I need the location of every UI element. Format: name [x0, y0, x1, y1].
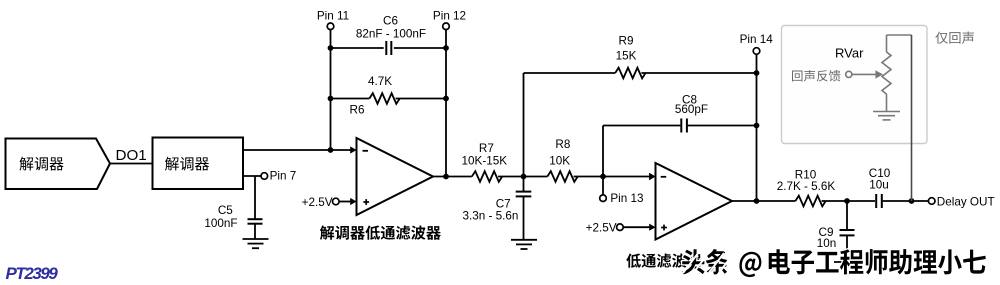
demodulator block 2 [153, 138, 244, 190]
label C9 value 10n [817, 226, 837, 250]
label C5 value [204, 204, 237, 230]
junction [521, 174, 527, 180]
output terminal Delay OUT [928, 195, 994, 208]
svg-text:C5: C5 [218, 204, 233, 217]
supply +2.5V to U2 non-inverting input [586, 222, 650, 235]
svg-text:+2.5V: +2.5V [302, 196, 333, 209]
wire: wiper arrow [852, 70, 883, 78]
junction [844, 198, 850, 204]
wire: block2 output to op-amp U1 inverting input [243, 146, 357, 153]
label C7 value [463, 197, 519, 222]
capacitor C8 feedback [603, 119, 757, 177]
svg-text:10K: 10K [549, 155, 570, 168]
junction [754, 123, 760, 129]
svg-text:C6: C6 [383, 15, 398, 28]
resistor R8 [524, 171, 604, 182]
ground (C9, mostly hidden behind watermark) [834, 262, 860, 271]
label C8 value 560pF [675, 94, 708, 116]
watermark 头条 @电子工程师助理小七 [682, 249, 986, 277]
svg-text:Pin 14: Pin 14 [740, 33, 774, 46]
label 仅回声 [935, 32, 974, 44]
junction [443, 96, 449, 102]
demodulator block 1 [6, 139, 111, 190]
svg-text:Pin 7: Pin 7 [270, 169, 297, 182]
junction: Pin 11 net on U1 input wire [328, 147, 334, 153]
label R7 value 10K-15K [462, 142, 508, 167]
svg-text:10n: 10n [817, 237, 837, 250]
svg-text:R6: R6 [350, 104, 365, 117]
label R10 value 2.7K - 5.6K [777, 169, 836, 193]
junction [328, 96, 334, 102]
svg-text:R8: R8 [555, 138, 570, 151]
svg-text:10K-15K: 10K-15K [462, 154, 508, 167]
label C10 value 10u [869, 167, 891, 192]
resistor R7 [472, 171, 524, 182]
junction [443, 45, 449, 51]
capacitor C9 [840, 201, 855, 262]
op-amp U2 [649, 163, 732, 240]
svg-text:Pin 13: Pin 13 [610, 192, 643, 205]
svg-text:15K: 15K [616, 50, 637, 63]
capacitor C7 [516, 177, 532, 240]
resistor R6 [331, 93, 447, 104]
wire: to Delay OUT [912, 200, 929, 202]
echo-only inset box [782, 26, 928, 144]
junction [443, 174, 449, 180]
potentiometer RVar [882, 35, 891, 111]
svg-text:Pin 11: Pin 11 [317, 10, 349, 23]
label R6 value 4.7K [350, 75, 393, 117]
junction [600, 174, 606, 180]
label 回声反馈 [792, 70, 841, 82]
svg-text:82nF - 100nF: 82nF - 100nF [356, 28, 426, 41]
svg-text:PT2399: PT2399 [6, 264, 59, 283]
label R8 value 10K [549, 138, 570, 168]
resistor R9 feedback [524, 68, 757, 177]
wire: U2 output [731, 200, 795, 202]
capacitor C6 [331, 41, 447, 55]
wire: Pin 12 vertical [445, 30, 447, 177]
wire: Pin 14 vertical [756, 54, 758, 201]
junction [754, 70, 760, 76]
pin terminal Pin 11 [317, 10, 349, 30]
svg-text:560pF: 560pF [675, 103, 708, 116]
svg-text:+2.5V: +2.5V [586, 222, 617, 235]
ground (C7) [511, 240, 537, 249]
wire: echo mix down to output node [911, 35, 913, 201]
svg-text:10u: 10u [869, 178, 889, 191]
svg-text:4.7K: 4.7K [368, 75, 392, 88]
svg-text:R7: R7 [479, 142, 494, 155]
pin terminal Pin 14 [740, 33, 774, 55]
svg-text:DO1: DO1 [116, 147, 147, 164]
svg-text:Delay OUT: Delay OUT [937, 195, 995, 208]
supply +2.5V to U1 non-inverting input [302, 196, 351, 209]
wire: Pin 7 stub [243, 175, 261, 177]
label C6 value [356, 15, 426, 41]
wire: echo mix top [887, 34, 912, 36]
terminal: echo feedback input [846, 71, 852, 77]
label R9 value 15K [616, 35, 637, 63]
label: 解调器低通滤波器 [320, 226, 441, 240]
junction [328, 45, 334, 51]
wire: Pin 11 vertical [330, 30, 332, 150]
pin terminal Pin 7 [261, 169, 296, 182]
ground (C5) [243, 239, 269, 248]
wire: to U2 inverting input [603, 173, 656, 180]
svg-text:2.7K - 5.6K: 2.7K - 5.6K [777, 180, 836, 193]
svg-text:Pin 12: Pin 12 [433, 10, 466, 23]
pin terminal Pin 12 [433, 10, 466, 30]
svg-text:3.3n - 5.6n: 3.3n - 5.6n [463, 209, 519, 222]
wire: DO1 block1 to block2 [109, 163, 153, 165]
pin terminal Pin 13 [600, 192, 644, 205]
ground (RVar) [873, 112, 900, 120]
junction [909, 198, 915, 204]
wire: Pin 13 stub [602, 177, 604, 195]
resistor R10 [795, 196, 875, 207]
capacitor C10 [876, 194, 911, 208]
op-amp U1 [350, 138, 433, 215]
svg-text:100nF: 100nF [204, 217, 237, 230]
wire: U1 output [432, 176, 472, 178]
svg-text:R9: R9 [619, 35, 634, 48]
capacitor C5 [248, 176, 263, 239]
junction [754, 198, 760, 204]
svg-text:RVar: RVar [835, 45, 864, 60]
label: 低通滤波器 [626, 254, 702, 268]
